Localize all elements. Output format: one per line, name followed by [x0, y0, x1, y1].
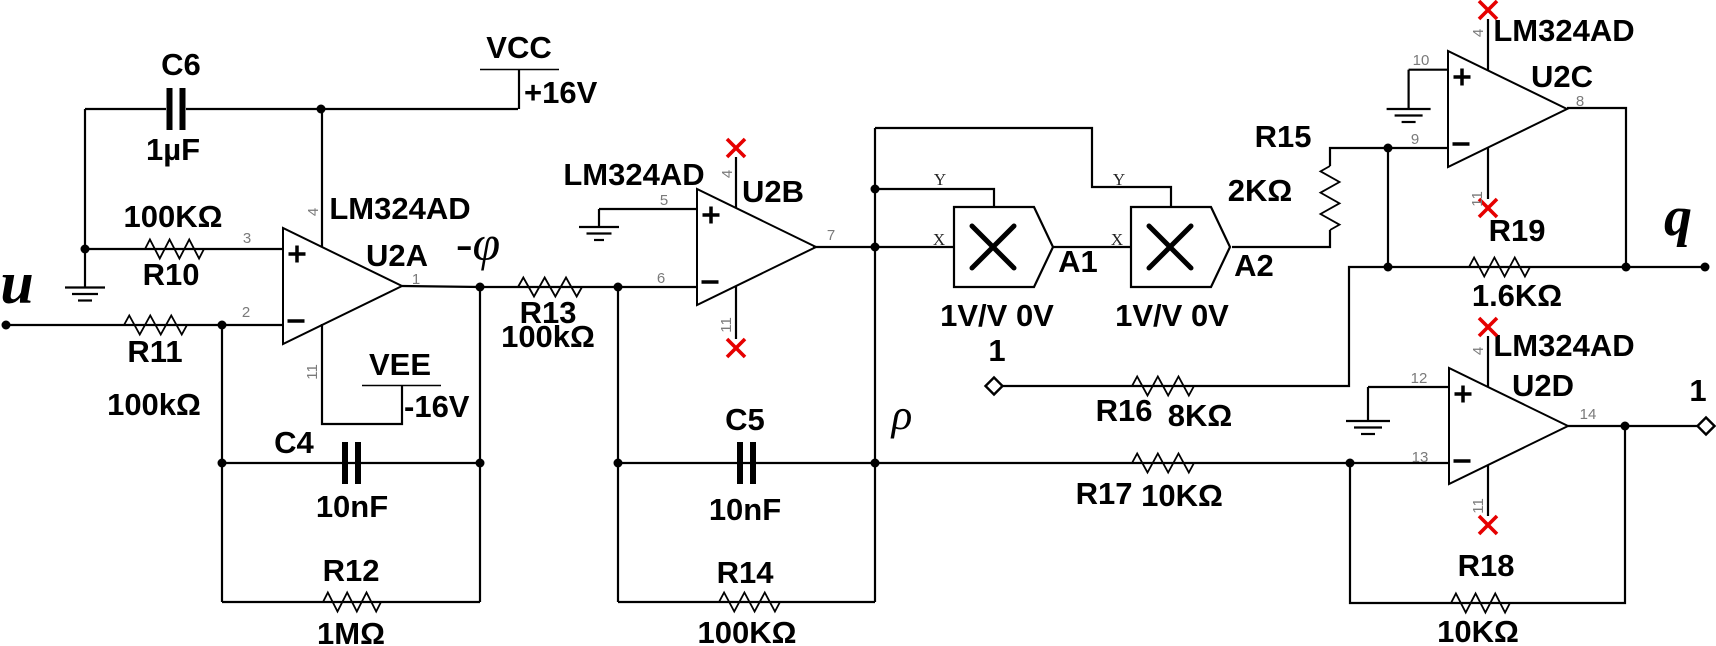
svg-text:2KΩ: 2KΩ: [1228, 173, 1292, 208]
resistor R12 1MΩ: [317, 553, 385, 646]
pin 9 label: [1411, 131, 1419, 148]
node R13/C5 junction: [614, 283, 623, 292]
wire R13 to U2B pin6: [480, 286, 697, 288]
wire to q terminal: [1626, 266, 1705, 268]
node pin9 junction: [1384, 144, 1393, 153]
output terminal q dot: [1701, 263, 1710, 272]
pin 11 label U2A: [304, 364, 321, 380]
input terminal u: [0, 250, 33, 330]
pin 3 label: [243, 230, 251, 247]
svg-text:Y: Y: [1113, 170, 1125, 189]
svg-text:ρ: ρ: [890, 392, 913, 439]
pin 13 label: [1412, 449, 1429, 466]
svg-text:R14: R14: [717, 555, 775, 590]
wire U2C output down to q: [1567, 108, 1626, 267]
wire R15 to U2C pin9: [1330, 148, 1448, 166]
capacitor C4 10nF: [274, 425, 388, 524]
svg-text:4: 4: [1470, 29, 1487, 37]
pin 6 label: [657, 270, 665, 287]
wire top loop to A2 Y: [875, 128, 1171, 207]
svg-text:11: 11: [1470, 498, 1487, 514]
label LM324AD U2B: [563, 157, 704, 192]
ground at U2D pin12: [1346, 387, 1390, 434]
svg-text:C4: C4: [274, 425, 314, 460]
svg-text:14: 14: [1580, 406, 1597, 423]
wire A1 to A2: [1053, 246, 1131, 248]
svg-text:R11: R11: [127, 334, 182, 369]
svg-text:1: 1: [988, 333, 1005, 368]
label LM324AD U2D: [1493, 328, 1634, 363]
svg-text:R19: R19: [1489, 213, 1546, 248]
svg-text:4: 4: [1470, 347, 1487, 355]
wire U2C pin10: [1409, 69, 1448, 71]
svg-text:3: 3: [243, 230, 251, 247]
wire junction down to R14: [617, 287, 619, 602]
wire U2A output down leg: [479, 287, 481, 602]
node X1 junction: [871, 243, 880, 252]
multiplier A1: [954, 207, 1098, 287]
resistor R15 2KΩ: [1228, 119, 1340, 230]
svg-text:LM324AD: LM324AD: [1493, 328, 1634, 363]
wire R17 rho to U2D pin13: [875, 462, 1449, 464]
svg-text:R15: R15: [1255, 119, 1312, 154]
no-connect X U2C pin4: [1479, 1, 1497, 19]
node rho label: [890, 392, 913, 439]
resistor R10 100KΩ: [124, 199, 223, 292]
svg-text:6: 6: [657, 270, 665, 287]
node q label: [1664, 186, 1692, 248]
svg-text:9: 9: [1411, 131, 1419, 148]
label LM324AD U2A: [329, 191, 470, 226]
power VCC +16V: [480, 30, 598, 110]
svg-text:VCC: VCC: [486, 30, 551, 65]
wire U2A output: [402, 286, 480, 287]
svg-text:LM324AD: LM324AD: [563, 157, 704, 192]
svg-text:4: 4: [719, 170, 736, 178]
wire U2A pin11 to VEE: [322, 324, 402, 424]
wire A2 output to R15: [1232, 230, 1330, 247]
wire U2C pin11 stub: [1487, 147, 1489, 199]
svg-text:7: 7: [827, 227, 835, 244]
node R19 left junction: [1384, 263, 1393, 272]
node R17/R18 junction: [1346, 459, 1355, 468]
resistor R14 100KΩ: [698, 555, 797, 646]
resistor R17 10KΩ: [1076, 454, 1223, 514]
svg-text:5: 5: [660, 192, 668, 209]
svg-text:A1: A1: [1058, 244, 1098, 279]
svg-text:R18: R18: [1458, 548, 1515, 583]
svg-text:R16: R16: [1096, 393, 1153, 428]
svg-text:10KΩ: 10KΩ: [1141, 478, 1223, 513]
wire C5 feedback: [618, 462, 875, 464]
no-connect X U2B pin4: [727, 139, 745, 157]
label 1V/V 0V A2: [1115, 298, 1229, 333]
svg-text:10: 10: [1413, 52, 1430, 69]
resistor R16 8KΩ: [1096, 377, 1233, 434]
wire R18 feedback: [1350, 426, 1625, 603]
node -phi label: [456, 215, 500, 271]
node U2A output junction: [476, 283, 485, 292]
resistor R13 100kΩ: [501, 278, 595, 355]
wire U2B output rail: [874, 128, 876, 602]
wire R14 feedback: [618, 601, 875, 603]
svg-text:1: 1: [1689, 373, 1706, 408]
wire U2D pin11 stub: [1487, 465, 1489, 516]
wire C6 left leg: [84, 109, 86, 249]
svg-text:A2: A2: [1234, 248, 1274, 283]
svg-text:100kΩ: 100kΩ: [501, 319, 595, 354]
svg-text:11: 11: [304, 364, 321, 380]
svg-text:LM324AD: LM324AD: [1493, 13, 1634, 48]
output terminal 1 diamond: [1689, 373, 1714, 435]
wire U2B pin4 stub: [735, 157, 737, 209]
wire R12 feedback: [222, 601, 480, 603]
capacitor C6: [146, 47, 201, 167]
node R10/ground junction: [81, 245, 90, 254]
svg-text:2: 2: [242, 304, 250, 321]
label 1V/V 0V A1: [940, 298, 1054, 333]
pin 8 label: [1576, 93, 1584, 110]
svg-text:U2A: U2A: [366, 238, 428, 273]
node R11/C4 junction: [218, 321, 227, 330]
input terminal 1 diamond: [986, 333, 1006, 395]
svg-text:100KΩ: 100KΩ: [698, 615, 797, 646]
svg-text:C5: C5: [725, 402, 765, 437]
svg-text:VEE: VEE: [369, 347, 431, 382]
wire R19 feedback: [1388, 266, 1626, 268]
no-connect X U2B pin11: [727, 339, 745, 357]
label X of A1: [933, 230, 945, 249]
svg-text:1V/V 0V: 1V/V 0V: [940, 298, 1054, 333]
node Y1 junction: [871, 185, 880, 194]
ground at R10: [65, 249, 105, 301]
svg-text:100kΩ: 100kΩ: [107, 387, 201, 422]
wire Y to A1: [875, 189, 994, 207]
wire R19 node to R16: [1003, 267, 1389, 386]
svg-text:100KΩ: 100KΩ: [124, 199, 223, 234]
svg-text:U2B: U2B: [742, 174, 804, 209]
svg-text:+16V: +16V: [524, 75, 598, 110]
wire u input to U2A pin2: [6, 324, 283, 326]
pin 11 label U2D: [1470, 498, 1487, 514]
wire X to A1: [875, 246, 954, 248]
wire U2C pin4 stub: [1487, 19, 1489, 70]
node C5 right junction: [871, 459, 880, 468]
pin 4 label U2A: [305, 208, 322, 216]
resistor R19 1.6KΩ: [1469, 213, 1562, 313]
svg-text:-16V: -16V: [404, 389, 470, 424]
pin 10 label: [1413, 52, 1430, 69]
wire to output 1 diamond: [1625, 425, 1698, 427]
wire U2B output pin7: [813, 246, 875, 248]
svg-text:U2C: U2C: [1531, 59, 1593, 94]
ground at U2B pin5: [579, 209, 619, 240]
wire U2D pin12: [1368, 386, 1449, 388]
pin 1 label U2A: [412, 271, 420, 288]
pin 5 label: [660, 192, 668, 209]
wire R10 to U2A pin3: [85, 248, 283, 250]
no-connect X U2C pin11: [1479, 199, 1497, 217]
node C5 left junction: [614, 459, 623, 468]
svg-text:10nF: 10nF: [316, 489, 388, 524]
svg-text:4: 4: [305, 208, 322, 216]
wire U2D output: [1568, 425, 1625, 427]
svg-text:1V/V 0V: 1V/V 0V: [1115, 298, 1229, 333]
pin 12 label: [1411, 370, 1428, 387]
op-amp U2C: [1448, 51, 1593, 167]
svg-text:10nF: 10nF: [709, 492, 781, 527]
multiplier A2: [1131, 207, 1274, 287]
svg-text:13: 13: [1412, 449, 1429, 466]
pin 11 label U2C: [1469, 191, 1486, 207]
svg-text:U2D: U2D: [1512, 368, 1574, 403]
node C4 right junction: [476, 459, 485, 468]
svg-text:10KΩ: 10KΩ: [1437, 614, 1519, 646]
svg-text:11: 11: [718, 317, 735, 333]
label X of A2: [1111, 230, 1123, 249]
pin 2 label: [242, 304, 250, 321]
op-amp U2A: [283, 228, 428, 344]
pin 11 label U2B: [718, 317, 735, 333]
no-connect X U2D pin11: [1479, 516, 1497, 534]
wire U2A pin4 to VCC: [321, 109, 323, 247]
pin 7 label: [827, 227, 835, 244]
op-amp U2D: [1449, 368, 1574, 484]
svg-text:R10: R10: [143, 257, 200, 292]
node VCC junction: [317, 105, 326, 114]
svg-text:C6: C6: [161, 47, 201, 82]
label Y of A2: [1113, 170, 1125, 189]
svg-text:X: X: [1111, 230, 1123, 249]
resistor R11 100kΩ: [107, 316, 201, 423]
wire C4 feedback: [222, 462, 480, 464]
node U2D output junction: [1621, 422, 1630, 431]
svg-text:12: 12: [1411, 370, 1428, 387]
label LM324AD U2C: [1493, 13, 1634, 48]
svg-text:-φ: -φ: [456, 215, 500, 271]
svg-text:R17: R17: [1076, 476, 1133, 511]
svg-text:1MΩ: 1MΩ: [317, 616, 385, 646]
svg-text:11: 11: [1469, 191, 1486, 207]
svg-text:q: q: [1664, 186, 1692, 248]
pin 4 label U2B: [719, 170, 736, 178]
svg-text:R12: R12: [323, 553, 380, 588]
svg-text:1µF: 1µF: [146, 132, 200, 167]
label Y of A1: [934, 170, 946, 189]
pin 4 label U2C: [1470, 29, 1487, 37]
svg-text:u: u: [0, 250, 33, 316]
svg-text:Y: Y: [934, 170, 946, 189]
node C4 left junction: [218, 459, 227, 468]
svg-text:X: X: [933, 230, 945, 249]
svg-text:1.6KΩ: 1.6KΩ: [1472, 278, 1562, 313]
resistor R18 10KΩ: [1437, 548, 1519, 646]
svg-text:LM324AD: LM324AD: [329, 191, 470, 226]
wire VCC rail: [85, 108, 518, 110]
wire U2B pin5: [599, 208, 697, 210]
wire U2B pin11 stub: [735, 286, 737, 339]
wire pin9 junction down: [1387, 148, 1389, 267]
node q junction: [1622, 263, 1631, 272]
wire U2D pin4 stub: [1487, 336, 1489, 387]
pin 14 label: [1580, 406, 1597, 423]
pin 4 label U2D: [1470, 347, 1487, 355]
wire R11 junction down to R12: [221, 325, 223, 602]
power VEE -16V: [362, 347, 470, 424]
op-amp U2B: [697, 174, 816, 305]
svg-text:8KΩ: 8KΩ: [1168, 398, 1232, 433]
no-connect X U2D pin4: [1479, 318, 1497, 336]
capacitor C5 10nF: [709, 402, 781, 527]
ground at U2C pin10: [1387, 70, 1431, 122]
